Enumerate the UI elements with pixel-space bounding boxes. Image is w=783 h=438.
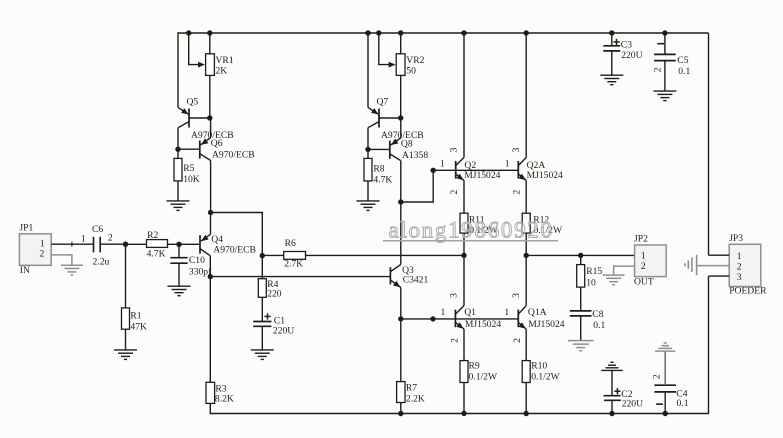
transistor Q2A collector diagonal (518, 158, 526, 166)
transistor Q4 emitter diagonal (201, 234, 211, 241)
svg-text:0.1: 0.1 (677, 398, 689, 409)
transistor Q2 bar (455, 161, 457, 179)
label Q8 (401, 138, 413, 149)
wire Q4 collector down to R3 (209, 256, 211, 382)
transistor Q4 emitter arrow (PNP into bar) (201, 235, 208, 241)
transistor Q7 emitter diagonal (368, 107, 378, 114)
svg-text:2: 2 (737, 261, 742, 272)
svg-text:R1: R1 (130, 311, 141, 322)
svg-text:50: 50 (406, 66, 416, 77)
connector JP1 box (19, 234, 51, 265)
node Q3 emitter / Q1 base junction (398, 316, 403, 321)
label R4 (267, 279, 278, 290)
transistor Q1A emitter diagonal (518, 322, 526, 329)
ground above C4 (gray inverted) (655, 343, 675, 351)
label C6 value 2.2u (93, 256, 110, 267)
node Q6 base junction (175, 147, 180, 152)
wire Q6 collector down to feedback tee (210, 161, 212, 213)
transistor Q2 collector diagonal (456, 158, 464, 166)
label R9 (469, 361, 480, 372)
ground below R8 (357, 201, 380, 211)
svg-text:JP3: JP3 (729, 233, 743, 244)
svg-text:VR1: VR1 (216, 55, 234, 66)
wire JP1 pin2 to ground (gray) (51, 255, 72, 265)
capacitor C3 plate 1 (+) (603, 45, 620, 47)
transistor Q1A emitter arrow (NPN outward) (519, 322, 526, 329)
wire R6 right lead to output rail (306, 254, 465, 256)
potentiometer VR2 body (396, 54, 405, 76)
svg-text:R8: R8 (373, 163, 384, 174)
resistor R2 body (147, 240, 168, 248)
label JP3 name POEDER (729, 286, 767, 297)
label Q1 (464, 307, 476, 318)
svg-text:C5: C5 (677, 55, 688, 66)
label C8 value 0.1 (593, 320, 605, 331)
capacitor C10 plate 2 (170, 262, 187, 264)
label C3 plus (613, 39, 619, 45)
wire Q1A emitter to R10 (525, 329, 527, 361)
svg-text:2: 2 (512, 338, 523, 343)
wire JP2 pin2 to ground (gray) (614, 266, 635, 275)
label R12 (533, 214, 549, 225)
svg-text:MJ15024: MJ15024 (464, 170, 500, 181)
node lower base wire corner (430, 316, 435, 321)
wire R15 to C8 (580, 287, 582, 311)
svg-text:3: 3 (737, 272, 742, 283)
node top rail / C5 junction (662, 30, 667, 35)
transistor Q5 emitter diagonal (178, 107, 188, 114)
svg-text:R2: R2 (147, 230, 158, 241)
node VR1 bottom / Q5 base junction (207, 115, 212, 120)
wire down to R1 (125, 244, 127, 308)
ground above C2 (inverted) (601, 362, 622, 370)
label R1 (130, 311, 141, 322)
label Q6 (211, 138, 223, 149)
transistor Q4 bar (199, 235, 201, 253)
ground below C8 (gray) (568, 341, 594, 351)
transistor Q2A emitter arrow (NPN outward) (519, 174, 526, 181)
wire VR2 wiper arm (379, 33, 394, 65)
resistor R12 body (522, 213, 530, 233)
resistor R5 body (174, 158, 182, 181)
wire C5 top lead (664, 33, 666, 54)
wire C3 top lead (611, 33, 613, 45)
svg-text:47K: 47K (130, 322, 147, 333)
label C4 (676, 388, 687, 399)
ground below C1 (251, 350, 274, 360)
label C5 value 0.1 (678, 66, 690, 77)
wire VR1 bottom lead to Q5 base / Q6 emitter (209, 75, 211, 118)
transistor Q1 emitter diagonal (455, 322, 464, 329)
svg-text:10K: 10K (183, 174, 200, 185)
capacitor C1 plate 2 (253, 325, 271, 327)
wire JP1 pin1 to C6 (51, 243, 93, 245)
wire R15 top lead (580, 255, 582, 264)
svg-text:OUT: OUT (634, 277, 654, 288)
svg-text:IN: IN (20, 265, 30, 276)
wire R8 bottom to ground (367, 181, 369, 201)
svg-text:C10: C10 (189, 255, 205, 266)
wire R2 to Q4 base (168, 243, 201, 245)
resistor R9 body (460, 361, 468, 383)
label R2 value 4.7K (147, 249, 166, 260)
label C1 plus (264, 313, 270, 319)
svg-text:A970/ECB: A970/ECB (212, 149, 255, 160)
wire Q4 collector to Q3 base (210, 276, 390, 278)
label R4 value 220 (267, 289, 282, 300)
svg-text:2: 2 (108, 233, 113, 244)
label Q5 (187, 97, 199, 108)
transistor Q3 emitter arrow (NPN outward) (393, 281, 400, 288)
svg-text:2: 2 (449, 189, 460, 194)
wire C5 bottom to ground (664, 61, 666, 92)
resistor R11 body (460, 213, 468, 233)
node top rail / Q7 branch junction (365, 30, 370, 35)
wire Q2 collector from top rail (463, 33, 465, 158)
label R6 (285, 238, 296, 249)
node top rail / Q2A collector junction (524, 30, 529, 35)
node R9 / bottom rail junction (461, 411, 466, 416)
node top rail / C3 junction (609, 30, 614, 35)
transistor Q3 bar (389, 267, 391, 284)
wire VR1 wiper arm (189, 33, 204, 65)
svg-text:220U: 220U (273, 325, 294, 336)
transistor Q7 base lead (379, 117, 401, 119)
svg-text:220: 220 (267, 289, 282, 300)
svg-text:1: 1 (81, 234, 86, 245)
label C4 minus (656, 403, 663, 405)
transistor Q2A emitter diagonal (518, 174, 526, 181)
wire C4 bottom lead (664, 392, 666, 414)
wire C3 bottom to ground (611, 51, 613, 75)
svg-text:Q1: Q1 (464, 307, 476, 318)
label C6 pin 1 (81, 234, 86, 245)
svg-text:2: 2 (652, 374, 663, 379)
svg-text:8.2K: 8.2K (215, 394, 234, 405)
ground below R1 (114, 350, 137, 360)
capacitor C5 plate 2 (654, 60, 676, 62)
label Q1A pin 3 (511, 293, 522, 298)
ground at JP2 pin2 (gray) (603, 275, 625, 285)
transistor Q1A bar (517, 310, 519, 328)
wiper arrow into VR1 (198, 62, 205, 68)
pin tick JP1 pin1 (71, 242, 73, 247)
resistor R15 body (577, 265, 585, 288)
node top rail / VR2 top junction (398, 30, 403, 35)
svg-text:1: 1 (641, 251, 646, 262)
svg-text:VR2: VR2 (406, 55, 424, 66)
svg-text:R10: R10 (531, 361, 547, 372)
label R6 value 2.7K (284, 259, 303, 270)
wire Q7 collector down to Q8 base node (367, 128, 369, 159)
transistor Q3 collector diagonal (390, 264, 400, 271)
svg-text:MJ15024: MJ15024 (527, 170, 563, 181)
svg-text:3: 3 (511, 293, 522, 298)
label Q2A (527, 160, 546, 171)
svg-text:3: 3 (449, 147, 460, 152)
wire feedback tee to R6 node (211, 213, 263, 256)
svg-text:C8: C8 (592, 309, 603, 320)
label Q6 part A970/ECB (212, 149, 255, 160)
label Q2A pin 2 (512, 189, 523, 194)
svg-text:MJ15024: MJ15024 (465, 319, 501, 330)
transistor Q1 emitter arrow (NPN outward) (456, 322, 463, 329)
capacitor C2 plate 1 (+) (604, 395, 621, 397)
ground below C5 (653, 91, 676, 101)
wire lower base wire (401, 318, 519, 320)
node top rail / Q2 collector junction (461, 30, 466, 35)
svg-text:2: 2 (40, 248, 45, 259)
svg-text:0.1/2W: 0.1/2W (469, 372, 498, 383)
svg-text:R5: R5 (183, 163, 194, 174)
wire R12 bottom to output rail (525, 233, 527, 255)
svg-text:JP2: JP2 (634, 233, 648, 244)
label Q2 pin 1 (440, 158, 445, 169)
node output rail / R15 junction (578, 253, 583, 258)
potentiometer VR1 body (206, 54, 215, 76)
label R3 value 8.2K (215, 394, 234, 405)
label Q2 pin 2 (449, 189, 460, 194)
connector JP2 box (635, 245, 667, 277)
svg-text:2: 2 (641, 261, 646, 272)
wire R10 bottom to bottom rail (525, 383, 527, 414)
transistor Q5 bar (188, 109, 190, 128)
label C2 plus (614, 388, 620, 394)
wire Q5 collector down to Q6 base node (177, 128, 179, 159)
wire VR2 top lead (400, 33, 402, 54)
node R10 / bottom rail junction (524, 411, 529, 416)
svg-text:1: 1 (441, 307, 446, 318)
svg-text:4.7K: 4.7K (373, 175, 392, 186)
label C1 value 220U (273, 325, 294, 336)
svg-text:Q5: Q5 (187, 97, 199, 108)
resistor R4 body (258, 279, 266, 298)
label C10 value 330pf (189, 266, 212, 277)
wire R11 bottom to output rail (463, 233, 465, 255)
svg-text:220U: 220U (621, 50, 642, 61)
transistor Q5 base lead (189, 117, 210, 119)
wire R6 left lead (262, 254, 283, 256)
resistor R6 body (284, 252, 306, 260)
capacitor C3 plate 2 (603, 50, 620, 52)
ground below C3 (600, 75, 623, 85)
label R10 value 0.1/2W (531, 372, 560, 383)
transistor Q8 emitter diagonal (391, 138, 401, 145)
svg-text:R6: R6 (285, 238, 296, 249)
label R5 value 10K (183, 174, 200, 185)
transistor Q2A bar (517, 161, 519, 179)
svg-text:1: 1 (737, 251, 742, 262)
label Q8 part A1358 (402, 150, 428, 161)
transistor Q5 collector diagonal (178, 122, 189, 128)
wire upper base wire to Q2A (433, 169, 518, 171)
label VR2 value 50 (406, 66, 416, 77)
label C2 (621, 389, 632, 400)
node R7 / bottom rail junction (398, 411, 403, 416)
label R8 (373, 163, 384, 174)
label C2 value 220U (622, 399, 643, 410)
label R8 value 4.7K (373, 175, 392, 186)
svg-text:4.7K: 4.7K (147, 249, 166, 260)
svg-text:3: 3 (449, 293, 460, 298)
svg-text:2: 2 (450, 338, 461, 343)
svg-text:0.1: 0.1 (593, 320, 605, 331)
capacitor C10 plate 1 (170, 257, 187, 259)
svg-text:C3: C3 (621, 40, 632, 51)
label Q1A part MJ15024 (528, 319, 564, 330)
label C10 (189, 255, 205, 266)
label Q2A part MJ15024 (527, 170, 563, 181)
label JP1 pin 2 (40, 248, 45, 259)
label Q2A pin 3 (511, 147, 522, 152)
wire left branch from top rail to Q5 emitter (177, 32, 179, 107)
node top rail / VR2 wiper junction (376, 30, 381, 35)
wire output rail to JP2 (526, 254, 634, 256)
transistor Q3 emitter diagonal (390, 280, 400, 288)
svg-text:Q1A: Q1A (528, 307, 547, 318)
label Q1 pin 2 (450, 338, 461, 343)
svg-text:0.1: 0.1 (678, 66, 690, 77)
capacitor C8 plate 1 (570, 310, 592, 312)
resistor R1 body (122, 308, 130, 329)
svg-text:10: 10 (586, 277, 596, 288)
label R10 (531, 361, 547, 372)
label R3 (215, 383, 226, 394)
node feedback tee at Q6 collector / Q4 emitter (208, 210, 213, 215)
label JP2 (634, 233, 648, 244)
svg-text:along19860920: along19860920 (389, 218, 554, 243)
node driver junction (Q8 collector) (398, 199, 403, 204)
ground at JP3 pin2 (gray, left-pointing) (685, 255, 697, 276)
wire C10 top lead (178, 244, 180, 257)
wire R4 top lead (261, 256, 263, 279)
label Q3 (402, 265, 414, 276)
svg-text:C3421: C3421 (403, 275, 429, 286)
svg-text:Q4: Q4 (211, 234, 223, 245)
svg-text:2: 2 (652, 67, 663, 72)
transistor Q6 collector diagonal (200, 154, 211, 161)
label Q1A pin 1 (504, 307, 509, 318)
node top rail / VR1 top junction (207, 30, 212, 35)
wire Q1A collector from output rail (525, 255, 527, 305)
wire Q1 emitter to R9 (463, 329, 465, 361)
svg-text:R7: R7 (406, 383, 417, 394)
label Q4 part A970/ECB (213, 244, 256, 255)
node upper base wire corner (431, 168, 436, 173)
svg-text:A970/ECB: A970/ECB (213, 244, 256, 255)
wire right rail lower segment (JP3 pin3 to bottom rail) (708, 276, 710, 414)
label R2 (147, 230, 158, 241)
label VR1 (216, 55, 234, 66)
capacitor C4 plate 1 (654, 384, 676, 386)
transistor Q4 collector diagonal (200, 249, 210, 256)
connector JP3 box (729, 244, 761, 286)
label JP1 (19, 223, 33, 234)
wire C1 bottom to ground (261, 326, 263, 350)
label JP3 pin 3 (737, 272, 742, 283)
node output rail / R11 / Q1 collector junction (461, 253, 466, 258)
wire Q8 collector down to driver node (400, 161, 402, 202)
svg-text:220U: 220U (622, 399, 643, 410)
ground below C10 (168, 286, 191, 296)
node bottom rail / C4 junction (663, 411, 668, 416)
label R11 value 0.1/2W (469, 225, 498, 236)
wire C8 bottom to ground (580, 316, 582, 341)
label JP3 pin 2 (737, 261, 742, 272)
wire C4 top to ground (gray) (664, 351, 666, 385)
wire C2 top to ground (611, 370, 613, 396)
label JP3 pin 1 (737, 251, 742, 262)
capacitor C2 plate 2 (604, 399, 621, 401)
label Q1A (528, 307, 547, 318)
svg-text:1: 1 (504, 307, 509, 318)
svg-text:R9: R9 (469, 361, 480, 372)
svg-text:A1358: A1358 (402, 150, 428, 161)
node C6 / R1 / R2 junction (123, 242, 128, 247)
label C5 minus (657, 43, 664, 45)
wire Q2A emitter to R12 (525, 180, 527, 213)
label R15 (586, 266, 602, 277)
ground at JP1 pin2 (gray) (61, 265, 83, 275)
label JP3 (729, 233, 743, 244)
label JP2 pin 2 (641, 261, 646, 272)
svg-text:2.7K: 2.7K (284, 259, 303, 270)
transistor Q1 collector diagonal (455, 306, 464, 315)
wire R4 to C1 (261, 297, 263, 321)
watermark along19860920 (383, 218, 558, 243)
wire VR2 bottom lead to Q7 base / Q8 emitter (400, 75, 402, 118)
wire driver node to Q3 collector (400, 202, 402, 264)
svg-text:MJ15024: MJ15024 (528, 319, 564, 330)
label C8 (592, 309, 603, 320)
label R11 (469, 214, 485, 225)
label Q2 (464, 160, 476, 171)
label R15 value 10 (586, 277, 596, 288)
label C1 (274, 315, 285, 326)
label JP2 pin 1 (641, 251, 646, 262)
label Q1A pin 2 (512, 338, 523, 343)
transistor Q8 base lead (368, 148, 390, 150)
label R7 (406, 383, 417, 394)
node Q4 collector / Q3 base junction (208, 274, 213, 279)
wire Q2A collector from top rail (525, 33, 527, 158)
svg-text:R15: R15 (586, 266, 602, 277)
node bottom rail / C2 junction (609, 411, 614, 416)
node VR2 bottom / Q7 base junction (398, 115, 403, 120)
wire JP3 pin3 lead (709, 275, 730, 277)
label C5 (677, 55, 688, 66)
transistor Q7 collector diagonal (368, 122, 379, 128)
label C6 (92, 224, 103, 235)
node Q8 base junction (365, 147, 370, 152)
wire Q1 collector from output rail (463, 255, 465, 305)
capacitor C6 plate 2 (99, 237, 101, 253)
wire JP3 pin2 to chassis ground (gray) (697, 265, 729, 267)
capacitor C6 plate 1 (93, 237, 95, 253)
svg-text:2.2K: 2.2K (406, 394, 425, 405)
label VR2 (406, 55, 424, 66)
svg-text:0.1/2W: 0.1/2W (531, 372, 560, 383)
label VR1 value 2K (216, 66, 228, 77)
wire R1 bottom to ground (125, 329, 127, 350)
svg-text:2K: 2K (216, 66, 228, 77)
svg-text:3: 3 (511, 147, 522, 152)
wire VR1 top lead (209, 33, 211, 54)
wire C10 bottom to ground (178, 263, 180, 286)
wire R7 top lead (400, 319, 402, 382)
svg-text:Q7: Q7 (377, 97, 389, 108)
svg-text:Q8: Q8 (401, 138, 413, 149)
